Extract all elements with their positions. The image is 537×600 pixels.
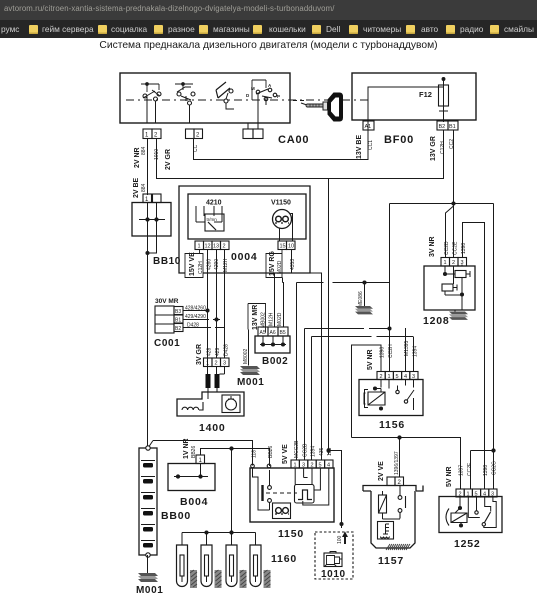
glow plug 3 <box>226 533 247 589</box>
label 2V NR + 884 + 1010 <box>134 146 160 168</box>
svg-text:A5: A5 <box>260 330 266 336</box>
svg-text:CC2G: CC2G <box>492 461 498 475</box>
label 2V BE + 884 above BB10 <box>133 177 147 198</box>
svg-text:4: 4 <box>327 463 330 469</box>
label 13V BE + CC1 <box>356 135 374 159</box>
svg-text:CC2B: CC2B <box>303 443 309 457</box>
svg-text:A: A <box>268 83 272 88</box>
CA00 blank connector <box>243 123 263 139</box>
starter 1010 dashed box <box>315 532 353 579</box>
svg-text:C001: C001 <box>154 338 180 349</box>
svg-text:1396/1397: 1396/1397 <box>394 451 400 475</box>
labels 5V VE MCC2B CC2B 1394 435 105 <box>282 440 333 464</box>
svg-text:1010: 1010 <box>321 569 346 580</box>
connector C001 <box>155 306 183 333</box>
ignition switch unit CA00 <box>120 73 368 123</box>
B004 pin 1 <box>196 455 205 464</box>
svg-text:1: 1 <box>198 244 201 250</box>
svg-text:MB002: MB002 <box>261 312 267 328</box>
svg-text:1400: 1400 <box>199 422 226 434</box>
svg-text:F12: F12 <box>419 90 432 99</box>
svg-text:P: P <box>277 94 280 99</box>
bottom line to 1252 pin2 <box>352 438 461 490</box>
svg-text:5: 5 <box>319 463 322 469</box>
wire MB002 to ground <box>248 330 250 366</box>
svg-text:4: 4 <box>483 492 486 498</box>
svg-text:D428: D428 <box>224 344 230 356</box>
1156 pins 2 1 5 4 3 <box>377 372 418 380</box>
svg-text:CC2D: CC2D <box>444 241 450 255</box>
svg-text:M02D: M02D <box>277 260 283 274</box>
wire CC: CA00 pin2 to BF00 A1 <box>194 130 369 160</box>
wire 4353 to 1150 pin 435 <box>292 250 322 461</box>
wire BB10 to BB00 <box>148 236 157 446</box>
svg-text:0004: 0004 <box>231 251 258 263</box>
thermal switch 1157 <box>363 438 423 551</box>
svg-text:M12H: M12H <box>223 258 229 272</box>
glow plug 4 <box>250 533 271 589</box>
0004 pins 15 10 <box>278 241 295 250</box>
svg-text:428: 428 <box>207 347 213 356</box>
svg-text:2: 2 <box>215 361 218 367</box>
svg-text:5: 5 <box>396 374 399 380</box>
svg-text:B1: B1 <box>175 318 181 324</box>
labels M12H M02D above B002 <box>269 312 284 326</box>
svg-text:1: 1 <box>206 361 209 367</box>
svg-text:CC2H: CC2H <box>388 344 394 358</box>
wire M12H branch to B002 <box>225 250 275 328</box>
label 13V GR + C12H + CC2 <box>430 136 455 161</box>
svg-text:A6: A6 <box>270 330 276 336</box>
svg-text:D: D <box>246 93 250 98</box>
CA00 switch contacts group 1 <box>141 83 161 123</box>
BF00 pins B2 B1 <box>437 121 448 130</box>
svg-text:15V VE: 15V VE <box>189 252 196 276</box>
CA00 pin connector 1|2 <box>143 129 161 139</box>
battery BB00 <box>139 446 157 557</box>
svg-text:13V BE: 13V BE <box>356 135 363 159</box>
labels 4260 4290 M12H <box>207 258 230 272</box>
wire CC2E to 1208 pin2 <box>453 204 455 258</box>
svg-text:BB10: BB10 <box>153 256 181 267</box>
svg-text:428/4260: 428/4260 <box>185 306 206 312</box>
svg-text:4353: 4353 <box>290 259 296 270</box>
ground M001 (near B002) <box>240 366 260 375</box>
svg-text:CC2F: CC2F <box>467 463 473 476</box>
svg-text:M8002: M8002 <box>243 348 249 364</box>
junction box B004 <box>168 464 215 491</box>
CA00 switch contacts group 4 (M A D P) <box>252 80 277 123</box>
svg-text:CC1: CC1 <box>368 140 374 150</box>
wire MCC2B horizontal + vertical <box>297 282 390 284</box>
pre-post heating unit 1150 <box>250 464 334 522</box>
wires splices to 1400 <box>208 388 217 399</box>
svg-text:12: 12 <box>205 244 211 250</box>
wire CC2 horizontal from BF00 B1 <box>390 203 494 205</box>
svg-text:MCC2B: MCC2B <box>294 440 300 458</box>
glow plug 2 <box>201 533 222 589</box>
svg-text:B2: B2 <box>439 124 446 130</box>
bracket 15V RG / M02D <box>266 250 283 278</box>
svg-text:2V NR: 2V NR <box>134 147 141 168</box>
svg-text:tr/mn: tr/mn <box>207 217 218 222</box>
bracket 15V VE / C12H <box>185 250 204 278</box>
svg-text:13V MR: 13V MR <box>252 305 259 330</box>
svg-text:1396: 1396 <box>380 347 386 358</box>
svg-text:2V BE: 2V BE <box>133 177 140 198</box>
svg-text:3V NR: 3V NR <box>429 236 436 257</box>
svg-text:884: 884 <box>141 183 147 192</box>
svg-text:429/4290: 429/4290 <box>185 314 206 320</box>
svg-text:13V GR: 13V GR <box>430 136 437 161</box>
instrument cluster 0004 outer box <box>179 186 310 273</box>
CA00 switch contacts group 3 <box>216 82 234 109</box>
svg-text:3: 3 <box>412 374 415 380</box>
B002 pins A5 A6 B5 <box>258 327 288 336</box>
svg-text:1: 1 <box>467 492 470 498</box>
svg-text:CC2: CC2 <box>449 139 455 149</box>
svg-text:BB26: BB26 <box>268 446 274 458</box>
svg-text:M1395: M1395 <box>404 340 410 356</box>
svg-text:CC2E: CC2E <box>453 241 459 255</box>
wire 884 down to BB10 <box>147 139 149 196</box>
1252 pins 2 1 5 4 3 <box>456 489 497 497</box>
svg-text:1252: 1252 <box>454 538 481 550</box>
svg-text:1394: 1394 <box>311 446 317 457</box>
relay 1252 <box>439 449 502 533</box>
svg-text:100: 100 <box>337 535 343 544</box>
ground under 1208 <box>449 310 468 320</box>
fuse F12 <box>439 85 449 115</box>
svg-text:3: 3 <box>491 492 494 498</box>
BB10 pin 1 <box>143 194 152 203</box>
svg-text:1: 1 <box>294 463 297 469</box>
label 1V NR BB26 <box>183 438 197 459</box>
labels 3V NR CC2D CC2E 1398 <box>429 236 467 257</box>
svg-text:15V RG: 15V RG <box>269 251 276 276</box>
wire 1394 horizontal y=336 <box>312 336 414 338</box>
svg-text:B1: B1 <box>449 124 456 130</box>
svg-text:13: 13 <box>213 244 219 250</box>
label 2V GR + CC <box>165 144 199 170</box>
1252 internals <box>446 497 496 528</box>
svg-text:B2: B2 <box>175 326 181 332</box>
svg-text:BF00: BF00 <box>384 134 414 146</box>
labels 5V NR 1396 CC2H M1395 1394 <box>367 340 419 370</box>
svg-text:4: 4 <box>404 374 407 380</box>
svg-text:1V NR: 1V NR <box>183 438 190 459</box>
CA00 pin connector 2 (CC) <box>186 129 203 139</box>
svg-text:429: 429 <box>215 347 221 356</box>
svg-text:1397: 1397 <box>459 465 465 476</box>
wire CC2B horizontal y=328 <box>305 328 390 330</box>
svg-text:1156: 1156 <box>379 419 405 431</box>
svg-text:2: 2 <box>380 374 383 380</box>
svg-text:5V NR: 5V NR <box>446 466 453 487</box>
svg-text:ME086: ME086 <box>358 291 364 307</box>
preheater unit 1400 <box>177 392 244 416</box>
bracket 13V MR / MB002 <box>248 304 267 333</box>
wire 105 long vertical from 1010 line <box>328 179 330 455</box>
warning lamp V1150 <box>271 200 293 242</box>
junction box B002 <box>255 336 290 353</box>
svg-text:1: 1 <box>388 374 391 380</box>
svg-text:3: 3 <box>223 361 226 367</box>
svg-text:2: 2 <box>223 244 226 250</box>
wire 105 branch to 1010 <box>329 451 342 529</box>
svg-text:V1150: V1150 <box>271 200 291 207</box>
rev counter 4210 <box>196 200 224 232</box>
1208 pins 1 2 3 <box>441 258 467 267</box>
svg-text:15: 15 <box>280 244 286 250</box>
1150 pins 1 3 2 5 4 <box>291 460 333 468</box>
wire M02D to B002 <box>283 278 284 328</box>
relay box 1208 <box>424 265 475 311</box>
svg-text:1157: 1157 <box>378 555 404 567</box>
wire glow plug bus feed <box>231 449 233 533</box>
svg-text:3: 3 <box>302 463 305 469</box>
C001 row wires + labels <box>183 309 225 328</box>
svg-text:1160: 1160 <box>271 553 297 565</box>
cluster inner box <box>188 194 306 239</box>
wire CC2D to 1208 pin1 <box>446 206 454 258</box>
svg-text:3: 3 <box>461 260 464 266</box>
svg-text:2: 2 <box>311 463 314 469</box>
BF00 pin A1 <box>363 121 374 130</box>
svg-text:4210: 4210 <box>206 200 222 207</box>
ground M001 (battery) <box>138 573 158 582</box>
svg-text:118: 118 <box>252 450 258 458</box>
svg-text:B5: B5 <box>280 330 286 336</box>
wire BB00 to ground <box>147 555 149 573</box>
svg-text:M02D: M02D <box>277 312 283 326</box>
svg-text:BB00: BB00 <box>161 510 191 522</box>
wire M12H / D428 <box>224 250 226 359</box>
svg-text:2V GR: 2V GR <box>165 149 172 170</box>
svg-text:1: 1 <box>145 133 149 139</box>
wire B004 pin1 to 1150 terminal BB26 <box>201 449 270 467</box>
fusebox BF00 <box>352 73 476 130</box>
svg-text:2: 2 <box>452 260 455 266</box>
svg-text:M001: M001 <box>237 377 264 388</box>
ground ME086 <box>364 283 366 308</box>
wire 4260 <box>207 250 209 376</box>
relay box 1156 <box>359 380 423 416</box>
svg-text:5: 5 <box>475 492 478 498</box>
wire M1395 from 1156 pin4 <box>405 328 407 372</box>
svg-text:2: 2 <box>459 492 462 498</box>
svg-text:C12H: C12H <box>198 261 204 274</box>
glow plug bus <box>182 532 256 534</box>
svg-text:5V VE: 5V VE <box>282 444 289 464</box>
svg-text:435: 435 <box>319 447 325 456</box>
svg-text:1398: 1398 <box>483 465 489 476</box>
svg-text:D428: D428 <box>187 323 199 329</box>
svg-text:1208: 1208 <box>423 315 450 327</box>
CA00 switch contacts group 2 <box>175 83 195 123</box>
labels 5V NR 1397 CC2F 1398 CC2G <box>446 461 498 487</box>
wire CC2H down to 1156 pin1 <box>389 204 391 372</box>
wire 1398: 1208 pin3 to right vertical <box>463 223 485 490</box>
wire BB00 top to 1150 terminal 118 <box>149 441 253 466</box>
svg-text:1150: 1150 <box>278 528 304 540</box>
svg-text:M12H: M12H <box>269 312 275 326</box>
wire CC2G right vertical to 1252 pin3 <box>493 204 495 490</box>
0004 pins 1 12 13 2 <box>195 241 229 250</box>
wire 4290 <box>216 250 218 359</box>
svg-text:B004: B004 <box>180 496 208 508</box>
svg-text:B3: B3 <box>175 309 181 315</box>
svg-text:1394: 1394 <box>413 346 419 357</box>
svg-text:A1: A1 <box>365 124 372 130</box>
svg-text:1398: 1398 <box>461 243 467 254</box>
connector 3V GR pins 1 2 3 <box>204 358 230 367</box>
wire 1396 bracket to bottom line <box>352 345 382 438</box>
svg-text:B002: B002 <box>262 356 288 367</box>
svg-text:30V MR: 30V MR <box>155 298 179 305</box>
splice blobs <box>206 374 211 388</box>
svg-text:M001: M001 <box>136 585 163 596</box>
svg-text:2: 2 <box>196 133 200 139</box>
svg-text:M: M <box>251 86 255 91</box>
svg-text:2: 2 <box>154 133 158 139</box>
junction box BB10 <box>132 203 171 237</box>
key symbol <box>293 93 343 122</box>
svg-text:CA00: CA00 <box>278 134 309 146</box>
svg-text:10: 10 <box>288 244 294 250</box>
svg-text:3V GR: 3V GR <box>196 344 203 365</box>
glow plug 1 <box>177 533 198 589</box>
svg-text:2V VE: 2V VE <box>378 461 385 481</box>
svg-text:5V NR: 5V NR <box>367 349 374 370</box>
svg-text:1: 1 <box>444 260 447 266</box>
wire 1010/C12H horizontal <box>157 130 444 179</box>
svg-text:884: 884 <box>141 146 147 155</box>
1150 internals <box>253 468 329 519</box>
